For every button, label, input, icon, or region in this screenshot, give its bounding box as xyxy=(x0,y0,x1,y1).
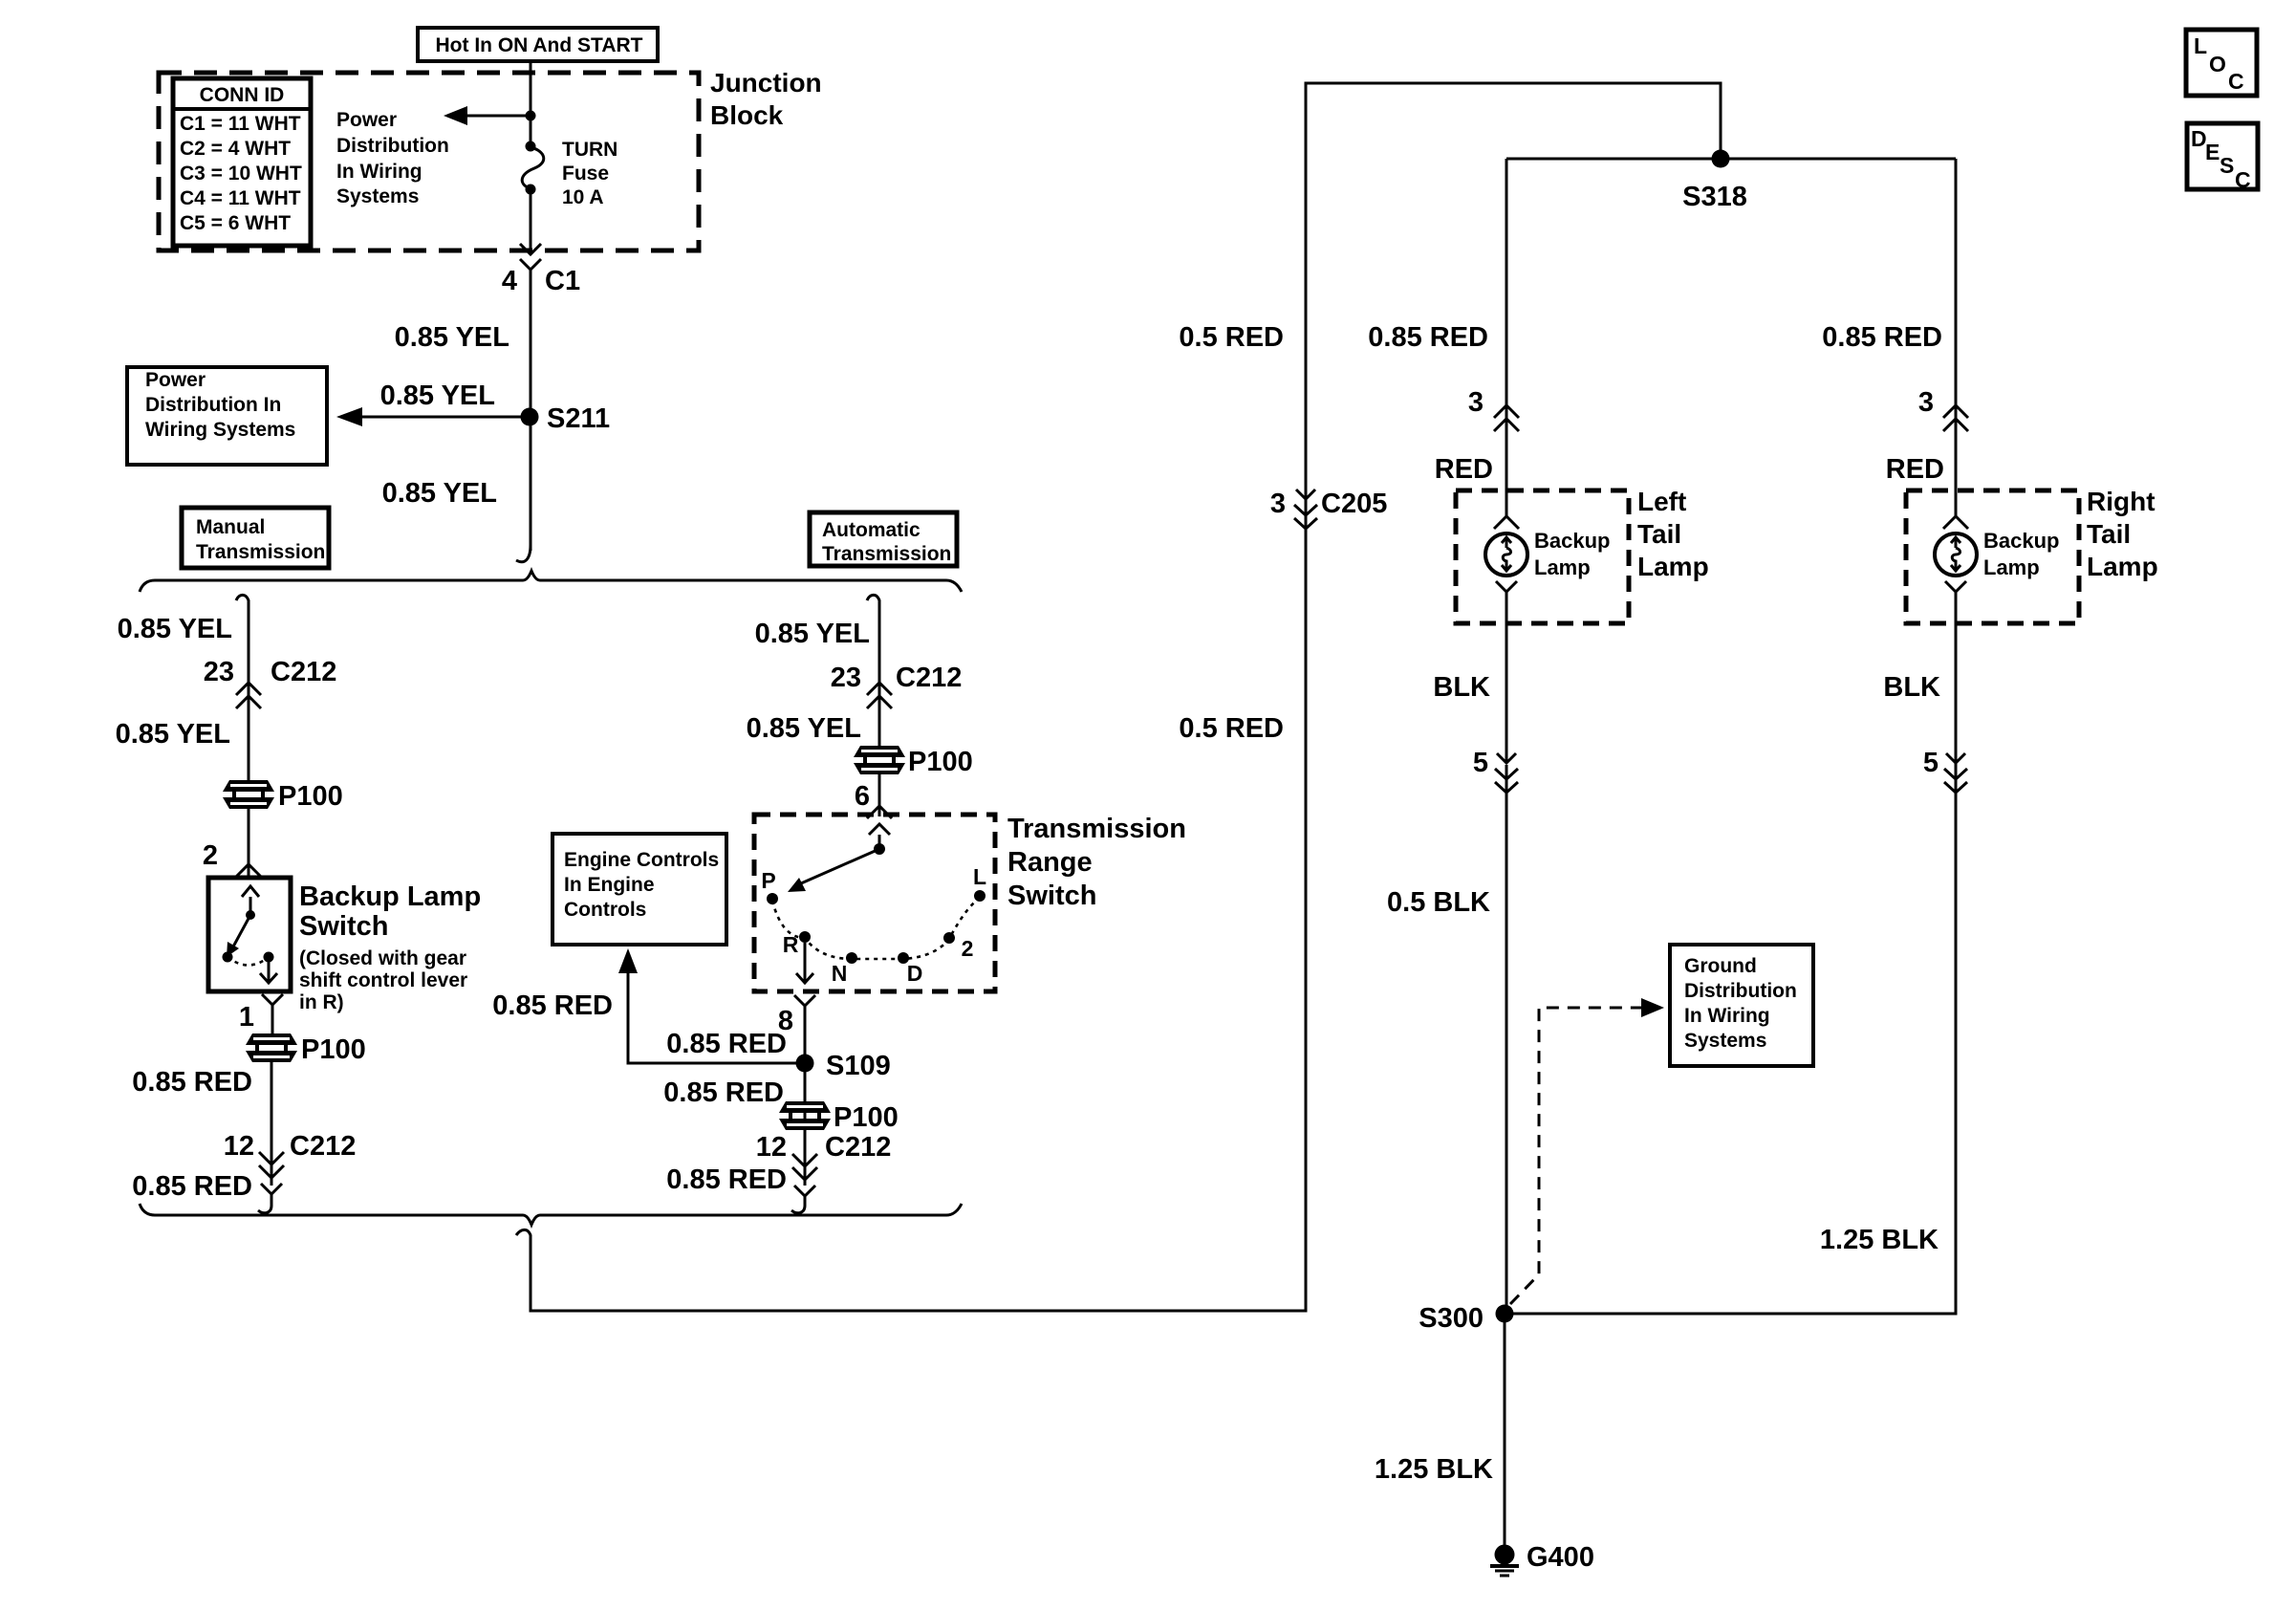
svg-text:(Closed with gear: (Closed with gear xyxy=(299,947,466,969)
svg-text:Power: Power xyxy=(145,369,206,391)
svg-text:Transmission: Transmission xyxy=(822,543,951,565)
svg-text:Transmission: Transmission xyxy=(196,541,325,563)
svg-text:0.85 YEL: 0.85 YEL xyxy=(380,381,495,411)
svg-text:1.25 BLK: 1.25 BLK xyxy=(1820,1225,1939,1255)
svg-text:S318: S318 xyxy=(1682,182,1747,212)
engine controls box xyxy=(552,834,726,945)
svg-text:6: 6 xyxy=(855,781,870,812)
switch contact right xyxy=(264,952,274,963)
wire: automatic branch upper xyxy=(878,608,881,816)
switch dashed throw arc xyxy=(227,957,269,966)
contact L xyxy=(974,890,986,902)
svg-text:S109: S109 xyxy=(826,1051,891,1081)
svg-text:0.85 RED: 0.85 RED xyxy=(1368,322,1488,353)
svg-text:Lamp: Lamp xyxy=(1983,555,2040,579)
svg-text:2: 2 xyxy=(203,840,218,871)
svg-text:L: L xyxy=(2194,33,2207,58)
switch entry arrow up xyxy=(869,824,890,847)
backup lamp switch box xyxy=(208,878,291,991)
wire hook at S211 branch end xyxy=(516,545,531,562)
svg-text:0.85 YEL: 0.85 YEL xyxy=(382,478,497,509)
svg-text:P: P xyxy=(761,868,775,893)
svg-text:Fuse: Fuse xyxy=(562,163,609,185)
svg-text:Automatic: Automatic xyxy=(822,519,921,541)
svg-text:3: 3 xyxy=(1468,387,1484,418)
svg-text:0.85 RED: 0.85 RED xyxy=(666,1164,787,1195)
connector out of right lamp xyxy=(1945,581,1966,612)
svg-text:in R): in R) xyxy=(299,991,344,1013)
contact N xyxy=(846,952,857,964)
svg-text:5: 5 xyxy=(1473,748,1488,778)
svg-text:Backup: Backup xyxy=(1983,529,2059,553)
svg-text:P100: P100 xyxy=(908,747,973,777)
svg-text:3: 3 xyxy=(1270,489,1286,519)
svg-text:Switch: Switch xyxy=(1007,881,1096,911)
svg-text:1: 1 xyxy=(239,1002,254,1033)
manual transmission box xyxy=(182,508,329,568)
grommet P100 (automatic branch) xyxy=(854,746,905,774)
svg-text:Junction: Junction xyxy=(710,68,822,98)
grommet P100 (manual branch lower) xyxy=(246,1033,297,1062)
wire: left lamp ground drop xyxy=(1505,602,1508,1314)
svg-text:In Wiring: In Wiring xyxy=(1684,1005,1770,1027)
switch exit arrow down xyxy=(260,957,277,983)
switch arm arrowhead xyxy=(788,878,806,892)
svg-text:P100: P100 xyxy=(301,1034,366,1065)
svg-text:C: C xyxy=(2228,69,2244,94)
node S300 xyxy=(1496,1305,1514,1323)
svg-text:0.85 RED: 0.85 RED xyxy=(132,1067,252,1098)
node S318 xyxy=(1712,150,1730,168)
arrow: feed exits junction block xyxy=(520,244,541,254)
transmission range switch box (dashed) xyxy=(754,815,995,991)
svg-text:0.85 RED: 0.85 RED xyxy=(666,1029,787,1059)
svg-text:C5 = 6 WHT: C5 = 6 WHT xyxy=(180,212,291,234)
svg-text:Lamp: Lamp xyxy=(2087,552,2158,581)
wire: switch to P100 xyxy=(271,1015,272,1186)
svg-text:Hot In ON And START: Hot In ON And START xyxy=(436,34,643,56)
svg-text:Ground: Ground xyxy=(1684,955,1757,977)
svg-text:S: S xyxy=(2220,153,2234,178)
DESC tag box xyxy=(2187,123,2258,189)
svg-text:Tail: Tail xyxy=(2087,519,2131,549)
arrowhead up to engine controls xyxy=(618,948,638,973)
svg-text:0.85 YEL: 0.85 YEL xyxy=(755,619,870,649)
switch exit arrow down (R) xyxy=(796,943,813,983)
svg-text:Block: Block xyxy=(710,100,784,130)
svg-text:Systems: Systems xyxy=(336,185,419,207)
svg-text:2: 2 xyxy=(962,936,974,961)
svg-text:RED: RED xyxy=(1886,454,1944,485)
dashed contact arc xyxy=(772,898,980,959)
switch arrow up xyxy=(242,886,259,913)
svg-text:Transmission: Transmission xyxy=(1007,814,1186,844)
left tail lamp box (dashed) xyxy=(1456,490,1629,623)
connector pin 8 xyxy=(794,995,815,1020)
wire: branch arrow to power distribution (in junction block) xyxy=(465,115,531,118)
svg-text:Power: Power xyxy=(336,109,397,131)
switch pivot dot xyxy=(246,910,255,920)
svg-text:0.85 YEL: 0.85 YEL xyxy=(118,614,232,644)
svg-text:S211: S211 xyxy=(547,403,610,434)
svg-text:P100: P100 xyxy=(834,1102,899,1133)
arrowhead left xyxy=(444,106,467,125)
svg-text:Right: Right xyxy=(2087,487,2155,516)
svg-text:Left: Left xyxy=(1637,487,1686,516)
arrowhead to ground distribution box xyxy=(1641,998,1664,1017)
contact P xyxy=(767,893,778,904)
svg-text:Distribution: Distribution xyxy=(336,135,449,157)
right tail lamp box (dashed) xyxy=(1906,490,2079,623)
svg-text:G400: G400 xyxy=(1527,1542,1594,1573)
svg-text:Lamp: Lamp xyxy=(1637,552,1709,581)
svg-text:D: D xyxy=(907,961,923,986)
svg-text:Backup: Backup xyxy=(1534,529,1610,553)
svg-text:TURN: TURN xyxy=(562,139,617,161)
svg-text:L: L xyxy=(973,864,986,889)
svg-text:C4 = 11 WHT: C4 = 11 WHT xyxy=(180,187,301,209)
wire: right lamp ground drop xyxy=(1505,602,1956,1314)
svg-text:0.5 BLK: 0.5 BLK xyxy=(1387,887,1490,918)
wire: P100 to backup lamp switch xyxy=(248,808,250,878)
svg-text:0.85 YEL: 0.85 YEL xyxy=(116,719,230,750)
svg-text:10 A: 10 A xyxy=(562,186,604,208)
ground distribution box xyxy=(1670,945,1813,1066)
switch arm arrowhead xyxy=(227,942,239,957)
svg-text:In Engine: In Engine xyxy=(564,874,655,896)
svg-text:0.85 RED: 0.85 RED xyxy=(663,1077,784,1108)
svg-text:shift control lever: shift control lever xyxy=(299,969,467,991)
connector pin 1 xyxy=(262,994,283,1019)
svg-text:C1: C1 xyxy=(545,266,580,296)
svg-text:0.85 YEL: 0.85 YEL xyxy=(395,322,509,353)
wire: switch to S109 xyxy=(804,1016,807,1186)
contact D xyxy=(898,952,909,964)
svg-text:C212: C212 xyxy=(290,1131,356,1162)
LOC tag box xyxy=(2186,30,2257,96)
wire hook below bottom bracket xyxy=(516,1229,531,1243)
switch pivot dot xyxy=(874,843,885,855)
svg-text:Distribution In: Distribution In xyxy=(145,394,281,416)
svg-text:0.85 YEL: 0.85 YEL xyxy=(747,713,861,744)
bracket: alternative branch bus (top) xyxy=(140,571,962,592)
svg-text:C2 = 4 WHT: C2 = 4 WHT xyxy=(180,138,291,160)
svg-text:0.85 RED: 0.85 RED xyxy=(492,990,613,1021)
connector into right lamp xyxy=(1943,516,1968,529)
wire hook: manual branch top xyxy=(236,595,249,608)
wire: S318 bus to both tail lamps xyxy=(1506,158,1956,161)
svg-text:C212: C212 xyxy=(825,1132,891,1163)
svg-text:12: 12 xyxy=(224,1131,254,1162)
power distribution box xyxy=(127,367,327,465)
svg-text:O: O xyxy=(2209,52,2226,76)
svg-text:23: 23 xyxy=(831,663,861,693)
automatic transmission box xyxy=(810,512,957,566)
svg-text:Distribution: Distribution xyxy=(1684,980,1797,1002)
svg-text:BLK: BLK xyxy=(1883,672,1940,703)
svg-text:0.5 RED: 0.5 RED xyxy=(1179,322,1284,353)
contact 2 xyxy=(943,932,955,944)
svg-text:Systems: Systems xyxy=(1684,1030,1766,1052)
switch contact left xyxy=(223,952,233,963)
wire hook: automatic branch top xyxy=(867,595,879,608)
wire: bus down and right to red feed riser xyxy=(531,83,1721,1311)
svg-text:C1 = 11 WHT: C1 = 11 WHT xyxy=(180,113,301,135)
svg-text:E: E xyxy=(2205,140,2220,164)
svg-text:Switch: Switch xyxy=(299,911,388,942)
wire: C1 to S211 to branch bracket xyxy=(530,298,532,551)
fuse TURN 10A xyxy=(526,141,536,152)
svg-text:C212: C212 xyxy=(271,657,336,687)
CONN ID table xyxy=(173,78,311,246)
wire: right tail lamp feed xyxy=(1955,159,1958,516)
svg-text:N: N xyxy=(832,961,848,986)
svg-text:4: 4 xyxy=(502,266,517,296)
svg-text:12: 12 xyxy=(756,1132,787,1163)
switch arm xyxy=(232,915,250,948)
ground G400 xyxy=(1495,1545,1515,1565)
wire: S300 to G400 xyxy=(1504,1314,1506,1546)
right backup lamp bulb xyxy=(1935,533,1977,576)
svg-text:Wiring Systems: Wiring Systems xyxy=(145,419,295,441)
svg-text:3: 3 xyxy=(1918,387,1934,418)
svg-text:RED: RED xyxy=(1435,454,1493,485)
svg-text:0.5 RED: 0.5 RED xyxy=(1179,713,1284,744)
svg-text:BLK: BLK xyxy=(1433,672,1490,703)
connector into left lamp xyxy=(1494,516,1519,529)
Hot In ON And START box xyxy=(418,28,658,61)
connector end with hook (automatic branch) xyxy=(791,1186,815,1213)
junction block (dashed) xyxy=(159,73,699,250)
wire: left tail lamp feed xyxy=(1505,159,1508,516)
dashed reference: S300 to ground distribution xyxy=(1510,1008,1646,1304)
svg-text:Lamp: Lamp xyxy=(1534,555,1591,579)
svg-text:Controls: Controls xyxy=(564,899,646,921)
svg-text:1.25 BLK: 1.25 BLK xyxy=(1375,1454,1493,1485)
svg-text:0.85 RED: 0.85 RED xyxy=(132,1171,252,1202)
wire: arrow from S211 to power distribution box xyxy=(361,416,521,419)
wire: main feed from Hot box down through junction block xyxy=(530,61,532,251)
svg-text:C212: C212 xyxy=(896,663,962,693)
connector 4 C1 xyxy=(520,259,541,298)
svg-text:Backup Lamp: Backup Lamp xyxy=(299,881,481,912)
node S211 xyxy=(521,408,539,426)
svg-text:Engine Controls: Engine Controls xyxy=(564,849,719,871)
svg-text:Manual: Manual xyxy=(196,516,265,538)
svg-text:S300: S300 xyxy=(1419,1303,1484,1334)
svg-text:0.85 RED: 0.85 RED xyxy=(1822,322,1942,353)
left backup lamp bulb xyxy=(1485,533,1527,576)
svg-text:Range: Range xyxy=(1007,847,1093,878)
node: junction dot on feed xyxy=(526,111,536,121)
svg-text:P100: P100 xyxy=(278,781,343,812)
grommet P100 (automatic branch lower) xyxy=(779,1101,831,1130)
contact R xyxy=(799,931,811,943)
grommet P100 (manual branch) xyxy=(223,780,274,809)
svg-text:In Wiring: In Wiring xyxy=(336,161,422,183)
connector out of left lamp xyxy=(1496,581,1517,612)
connector end with hook (manual branch) xyxy=(258,1184,282,1213)
svg-text:C: C xyxy=(2235,167,2251,192)
arrowhead left xyxy=(336,407,362,426)
bracket: alternative branch bus (bottom) xyxy=(140,1204,962,1225)
svg-text:23: 23 xyxy=(204,657,234,687)
svg-text:C205: C205 xyxy=(1321,489,1387,519)
svg-text:CONN ID: CONN ID xyxy=(200,84,285,106)
wire: manual branch upper xyxy=(248,606,250,784)
node S109 xyxy=(796,1055,814,1073)
switch arm xyxy=(801,849,879,883)
wire: S109 branch to engine controls arrow xyxy=(628,969,805,1063)
svg-text:C3 = 10 WHT: C3 = 10 WHT xyxy=(180,163,302,185)
svg-text:Tail: Tail xyxy=(1637,519,1681,549)
svg-text:5: 5 xyxy=(1923,748,1939,778)
